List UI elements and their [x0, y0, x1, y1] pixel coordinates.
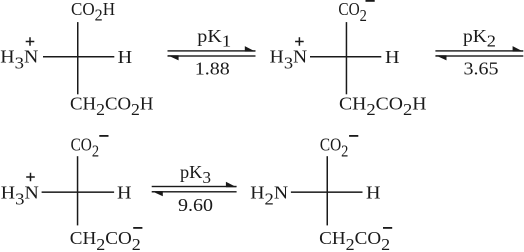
- svg-text:H: H: [366, 183, 381, 203]
- vertical bond S2: [346, 22, 348, 94]
- svg-text:1.88: 1.88: [195, 59, 230, 79]
- bottom arrow head: [435, 55, 446, 60]
- bottom arrow line: [152, 191, 237, 192]
- vertical bond S1: [77, 22, 79, 94]
- top arrow head: [226, 182, 237, 188]
- horizontal bond S3: [42, 191, 115, 193]
- minus charge bottom S4: [383, 227, 392, 229]
- bottom arrow head: [168, 55, 179, 60]
- minus charge top S3: [99, 135, 108, 137]
- horizontal bond S1: [43, 56, 114, 58]
- top arrow line: [435, 50, 523, 51]
- svg-text:H: H: [385, 47, 400, 67]
- svg-text:9.60: 9.60: [178, 195, 213, 215]
- top arrow line: [168, 50, 256, 51]
- svg-text:H: H: [117, 183, 132, 203]
- bottom arrow line: [435, 55, 523, 56]
- vertical bond S3: [77, 156, 79, 225]
- horizontal bond S4: [291, 191, 363, 193]
- svg-text:3.65: 3.65: [464, 59, 499, 79]
- plus charge S3: [26, 173, 35, 182]
- bottom arrow head: [152, 191, 163, 196]
- top arrow head: [245, 46, 256, 52]
- plus charge S1: [26, 37, 35, 46]
- horizontal bond S2: [310, 56, 381, 58]
- minus charge bottom S3: [133, 227, 142, 229]
- minus charge top S4: [349, 135, 358, 137]
- minus charge top S2: [366, 0, 375, 2]
- top arrow line: [152, 186, 237, 187]
- top arrow head: [513, 46, 524, 52]
- vertical bond S4: [327, 156, 329, 225]
- bottom arrow line: [168, 55, 256, 56]
- svg-text:H: H: [118, 47, 133, 67]
- plus charge S2: [295, 37, 304, 46]
